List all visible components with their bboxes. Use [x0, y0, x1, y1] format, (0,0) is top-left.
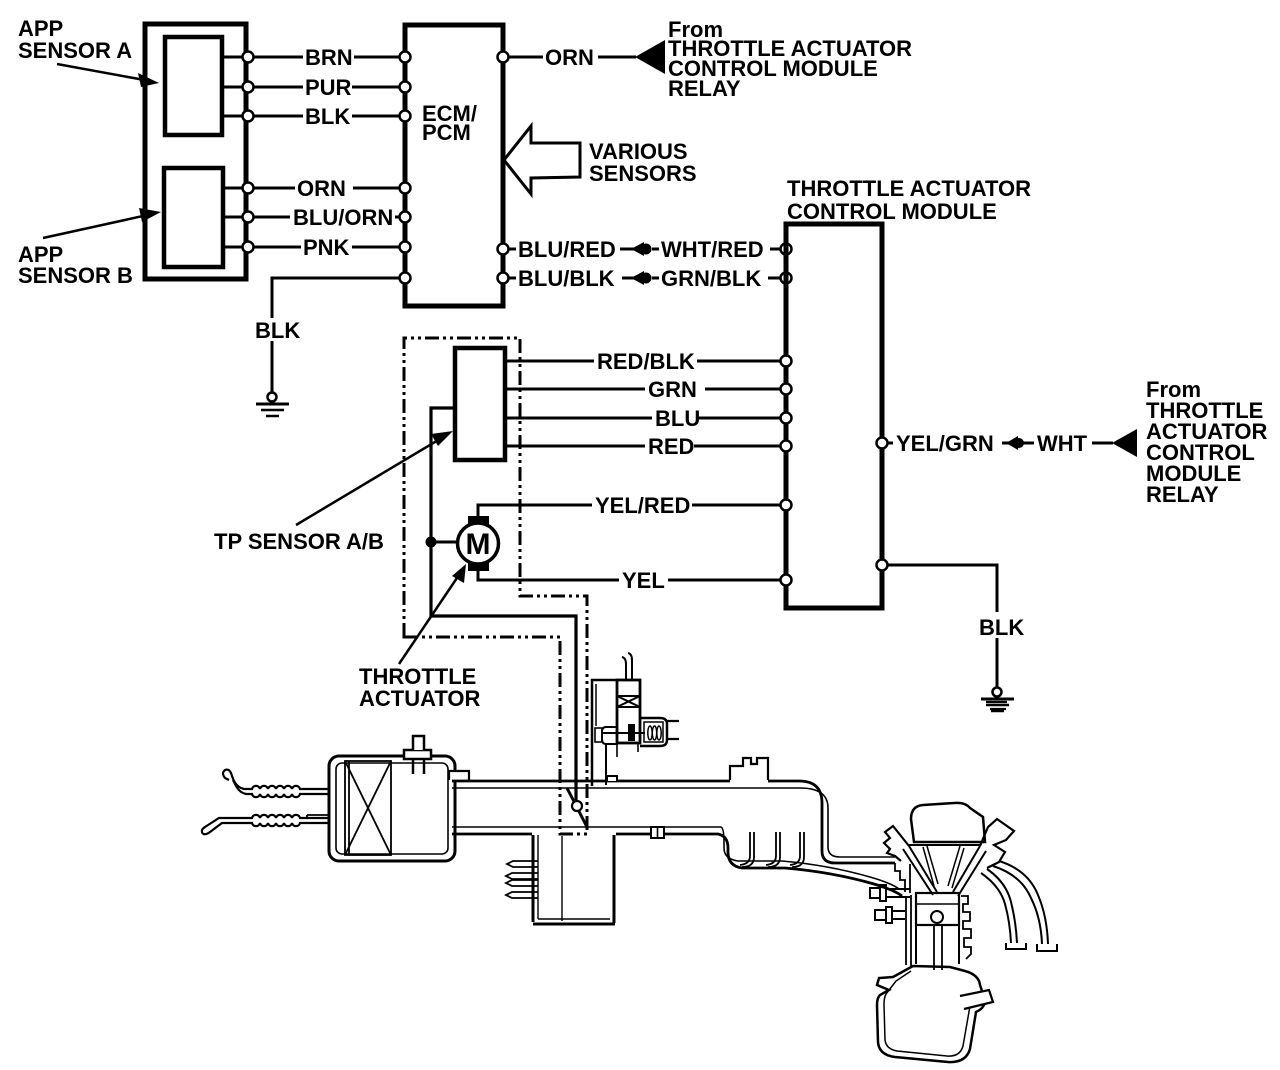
pin circle BLU/ORN at ECM — [400, 212, 411, 223]
svg-text:BLU/BLK: BLU/BLK — [518, 266, 615, 291]
svg-text:CONTROL MODULE: CONTROL MODULE — [787, 199, 997, 224]
various sensors block arrow — [504, 126, 580, 194]
ground symbol left — [256, 393, 289, 417]
pin circle YEL at TACM — [781, 575, 792, 586]
spark plug gap marks — [986, 702, 1007, 709]
throttle actuator control module box — [786, 224, 882, 608]
svg-text:YEL: YEL — [622, 568, 665, 593]
wire PNK stub B — [223, 246, 243, 249]
pin circle YEL/GRN at TACM — [877, 438, 888, 449]
svg-text:RELAY: RELAY — [1146, 482, 1219, 507]
wire ECM ground BLK — [272, 278, 403, 318]
pin circle BLK at ECM — [400, 111, 411, 122]
upper wall small tab — [607, 776, 617, 781]
throttle shaft pivot — [572, 801, 582, 811]
pin circle BLU/RED at ECM — [498, 244, 509, 255]
intake duct lower wall — [452, 827, 902, 896]
wire RED — [507, 445, 645, 448]
wire BLU — [507, 417, 652, 420]
head left wall steps — [895, 863, 910, 893]
svg-text:PCM: PCM — [422, 120, 471, 145]
wire BLU/ORN — [253, 216, 290, 219]
wire ORN left — [253, 187, 295, 190]
svg-text:BLU: BLU — [655, 406, 700, 431]
svg-text:BLK: BLK — [305, 104, 350, 129]
svg-text:ORN: ORN — [545, 45, 594, 70]
svg-text:SENSOR B: SENSOR B — [18, 263, 133, 288]
pin circle TACM right bottom — [877, 560, 888, 571]
svg-text:SENSOR A: SENSOR A — [18, 38, 132, 63]
intake runner 3 — [790, 832, 804, 867]
node circle BLU/ORN at APP box — [243, 212, 254, 223]
svg-text:WHT: WHT — [1037, 431, 1088, 456]
dash-dot throttle actuator enclosure — [404, 338, 587, 834]
motor M throttle actuator — [458, 516, 499, 571]
connector dot BLU/RED-WHT/RED — [631, 242, 652, 256]
pin circle PNK at ECM — [400, 242, 411, 253]
connector dot BLU/BLK-GRN/BLK — [631, 271, 652, 285]
svg-text:M: M — [466, 528, 491, 561]
wire BLK top — [253, 115, 303, 118]
wire RED/BLK — [507, 360, 594, 363]
canister element X-box — [345, 761, 391, 855]
svg-text:SENSORS: SENSORS — [589, 161, 697, 186]
pin circle RED/BLK at TACM — [781, 356, 792, 367]
wire YEL — [478, 568, 619, 580]
svg-text:ORN: ORN — [297, 176, 346, 201]
piston — [916, 893, 959, 970]
node circle ORN at APP box — [243, 183, 254, 194]
lower wall small tab — [651, 827, 664, 838]
arrow to TAC module relay top — [635, 40, 665, 74]
svg-text:RELAY: RELAY — [668, 76, 741, 101]
wire YEL/RED — [478, 505, 592, 516]
node circle PUR at APP box — [243, 82, 254, 93]
svg-text:BLU/RED: BLU/RED — [518, 237, 616, 262]
intake duct upper wall — [449, 771, 895, 863]
wire ORN right — [508, 56, 543, 59]
pin circle ORN right at ECM — [498, 52, 509, 63]
ground symbol right — [981, 688, 1014, 712]
canister top fitting — [404, 736, 431, 774]
wire junction to motor — [431, 541, 459, 544]
canister outer shell — [329, 756, 455, 861]
wire GRN — [507, 388, 645, 391]
APP sensor outer box — [145, 24, 246, 279]
svg-text:GRN: GRN — [648, 377, 697, 402]
wire BLK stub A — [222, 115, 243, 118]
wire BLU/BLK — [508, 277, 516, 280]
svg-text:TP SENSOR A/B: TP SENSOR A/B — [214, 529, 384, 554]
wire TACM to ground BLK right — [885, 565, 997, 612]
svg-text:BLK: BLK — [255, 318, 300, 343]
wire BLU/ORN stub B — [223, 216, 243, 219]
APP sensor B inner box — [164, 168, 223, 267]
canister inner wall — [336, 763, 448, 854]
pin circle YEL/RED at TACM — [781, 500, 792, 511]
node circle PNK at APP box — [243, 242, 254, 253]
pin circle BLU at TACM — [781, 413, 792, 424]
pin circle BLU/BLK at ECM — [498, 273, 509, 284]
pin circle WHT/RED at TACM — [781, 244, 792, 255]
pin circle GRN at TACM — [781, 384, 792, 395]
pin circle PUR at ECM — [400, 82, 411, 93]
wire BRN — [253, 56, 303, 59]
svg-text:RED: RED — [648, 434, 694, 459]
throttle plate — [567, 788, 587, 827]
svg-text:BRN: BRN — [305, 45, 353, 70]
intake runner 2 — [766, 832, 780, 867]
pin circle BRN at ECM — [400, 52, 411, 63]
upper corrugated hose — [223, 770, 330, 798]
purge solenoid valve assembly — [592, 653, 679, 786]
svg-text:RED/BLK: RED/BLK — [597, 349, 695, 374]
svg-text:BLK: BLK — [979, 615, 1024, 640]
svg-text:WHT/RED: WHT/RED — [661, 237, 764, 262]
svg-text:YEL/RED: YEL/RED — [595, 493, 690, 518]
exhaust valve stem — [948, 846, 964, 888]
wire BLU/RED — [508, 248, 516, 251]
pin circle GRN/BLK at TACM — [781, 273, 792, 284]
node circle BRN at APP box — [243, 52, 254, 63]
junction dot on link — [426, 537, 437, 548]
lower corrugated hose — [202, 815, 330, 834]
arrow to TAC module relay right — [1112, 429, 1137, 457]
ECM/PCM box — [405, 25, 503, 306]
svg-text:YEL/GRN: YEL/GRN — [896, 431, 994, 456]
svg-text:THROTTLE ACTUATOR: THROTTLE ACTUATOR — [787, 176, 1031, 201]
intake runner 1 — [740, 832, 754, 867]
pin circle ORN at ECM — [400, 183, 411, 194]
node circle BLK at APP box — [243, 111, 254, 122]
head port fitting upper — [870, 885, 910, 901]
intake valve stem — [923, 846, 938, 886]
crankcase — [877, 966, 985, 1062]
housing fins — [506, 861, 538, 898]
TP sensor box — [455, 348, 505, 460]
wire ORN stub B — [223, 187, 243, 190]
pin circle RED at TACM — [781, 441, 792, 452]
wire PUR stub A — [222, 86, 243, 89]
throttle cable bracket — [730, 758, 768, 780]
engine valve cover — [911, 803, 985, 842]
leader arrow to sensor A — [57, 64, 159, 87]
svg-text:GRN/BLK: GRN/BLK — [661, 266, 761, 291]
wire YEL/GRN — [887, 442, 893, 445]
pin circle ground at ECM — [400, 273, 411, 284]
intake port horn left — [884, 826, 909, 861]
wire PNK — [253, 246, 301, 249]
mechanical link TP sensor to throttle shaft — [431, 408, 576, 800]
cylinder wall left — [906, 895, 911, 967]
wire PUR — [253, 86, 303, 89]
APP sensor A inner box — [165, 37, 222, 135]
wire BRN stub A — [222, 56, 243, 59]
svg-text:PNK: PNK — [303, 235, 350, 260]
connector dot YEL/GRN-WHT — [1006, 436, 1024, 450]
leader arrow to sensor B — [43, 208, 161, 238]
engine breather hose inner — [981, 869, 1017, 943]
head port fitting lower — [875, 907, 905, 923]
svg-text:BLU/ORN: BLU/ORN — [293, 205, 393, 230]
svg-text:PUR: PUR — [305, 75, 352, 100]
throttle body lower housing — [533, 835, 615, 924]
crankcase right fitting — [960, 990, 993, 1009]
leader arrow throttle actuator — [399, 564, 466, 664]
cylinder wall right steps — [961, 896, 971, 959]
svg-text:ACTUATOR: ACTUATOR — [359, 686, 481, 711]
engine breather hose outer — [993, 861, 1048, 944]
cylinder head funnel — [903, 845, 986, 896]
leader arrow TP sensor — [296, 431, 453, 525]
exhaust port horn right — [980, 819, 1014, 868]
